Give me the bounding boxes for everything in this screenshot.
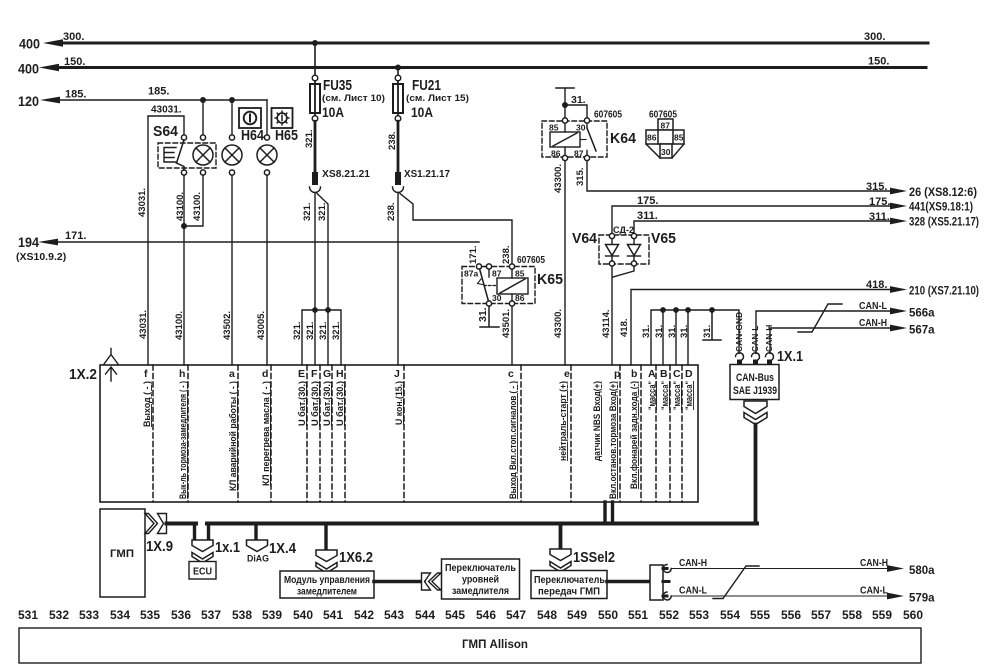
node on 185 rail at x202 xyxy=(200,97,206,103)
svg-text:43300.: 43300. xyxy=(553,164,564,193)
svg-text:85: 85 xyxy=(549,123,559,133)
wire 31 to K64 pin30 xyxy=(565,105,587,118)
svg-text:554: 554 xyxy=(720,608,740,622)
svg-text:87: 87 xyxy=(661,121,671,131)
svg-text:238.: 238. xyxy=(501,246,512,265)
svg-text:30: 30 xyxy=(576,123,586,133)
svg-text:СД-2: СД-2 xyxy=(613,225,634,236)
lamp H64 xyxy=(222,135,242,175)
title box ГМП Allison xyxy=(19,628,921,663)
svg-text:(см. Лист 15): (см. Лист 15) xyxy=(406,93,469,104)
svg-text:H: H xyxy=(336,368,344,380)
svg-text:D: D xyxy=(685,368,693,380)
connector XS1.21.17 xyxy=(393,172,404,193)
svg-text:КЛ аварийной работы ( - ): КЛ аварийной работы ( - ) xyxy=(228,381,238,491)
svg-text:400: 400 xyxy=(19,37,40,52)
ground stub 31 xyxy=(703,310,721,340)
svg-text:10A: 10A xyxy=(411,104,433,120)
arrow CAN-L bottom xyxy=(887,593,904,600)
node 321 G xyxy=(325,307,331,313)
connector hooks CAN-Bus xyxy=(736,353,774,366)
svg-text:U бат.(30.): U бат.(30.) xyxy=(335,381,345,426)
svg-text:560: 560 xyxy=(903,608,923,622)
node 31 D xyxy=(685,307,691,313)
svg-text:CAN-GND: CAN-GND xyxy=(734,312,744,352)
wire 175 (to arrow 441) xyxy=(612,206,902,234)
svg-text:543: 543 xyxy=(384,608,404,622)
svg-text:уровней: уровней xyxy=(462,575,499,586)
svg-text:547: 547 xyxy=(506,608,526,622)
svg-text:418.: 418. xyxy=(866,279,887,291)
svg-text:CAN-Bus: CAN-Bus xyxy=(736,372,774,384)
svg-text:43114.: 43114. xyxy=(601,309,612,338)
svg-text:194: 194 xyxy=(18,235,39,250)
svg-text:175.: 175. xyxy=(869,196,890,208)
svg-text:1X.9: 1X.9 xyxy=(146,539,173,555)
svg-text:"масса": "масса" xyxy=(672,381,682,410)
ECU box xyxy=(189,562,216,580)
svg-text:f: f xyxy=(144,368,148,380)
svg-text:550: 550 xyxy=(598,608,618,622)
connector mate chevron above 1X.2 xyxy=(104,349,118,365)
svg-text:"масса": "масса" xyxy=(647,381,657,410)
svg-text:Выход ( - ): Выход ( - ) xyxy=(142,381,152,427)
svg-text:43005.: 43005. xyxy=(256,311,267,340)
svg-text:150.: 150. xyxy=(868,56,889,68)
fuse FU35 xyxy=(310,40,320,121)
svg-text:553: 553 xyxy=(689,608,709,622)
svg-text:H64: H64 xyxy=(241,128,264,144)
svg-text:87: 87 xyxy=(574,149,584,159)
svg-text:нейтраль-старт (+): нейтраль-старт (+) xyxy=(558,381,568,461)
svg-text:311.: 311. xyxy=(637,210,658,222)
wire 150 rail xyxy=(39,64,926,72)
svg-text:300.: 300. xyxy=(864,31,885,43)
svg-text:544: 544 xyxy=(415,608,435,622)
svg-text:539: 539 xyxy=(262,608,282,622)
connector 1X.4 DIAG xyxy=(247,540,268,552)
wire 43501 (K65 pin86 to pin c) xyxy=(511,306,513,365)
svg-text:КЛ перегрева масла ( - ): КЛ перегрева масла ( - ) xyxy=(261,381,271,486)
svg-text:d: d xyxy=(262,368,268,380)
svg-text:B: B xyxy=(660,368,668,380)
svg-text:XS8.21.21: XS8.21.21 xyxy=(322,168,370,180)
block separators (dashed) xyxy=(153,365,682,502)
svg-text:Вык-ль тормоза-замедлителя ( -: Вык-ль тормоза-замедлителя ( - ) xyxy=(178,381,188,499)
svg-text:FU21: FU21 xyxy=(412,78,441,94)
svg-text:537: 537 xyxy=(201,608,221,622)
svg-text:171.: 171. xyxy=(468,246,479,265)
svg-text:FU35: FU35 xyxy=(323,78,352,94)
wire 43502 (H64 to pin a) xyxy=(231,175,233,365)
wire 238 to pin J xyxy=(397,193,399,366)
svg-text:CAN-L: CAN-L xyxy=(859,301,887,312)
svg-text:579а: 579а xyxy=(909,593,935,605)
svg-text:85: 85 xyxy=(674,133,684,143)
svg-text:567а: 567а xyxy=(909,325,935,337)
wire H65 top (corner of 185 rail) xyxy=(266,100,268,135)
svg-text:607605: 607605 xyxy=(649,110,677,121)
wire 418 (pin b to arrow 210) xyxy=(631,290,902,366)
retarder lever switch box xyxy=(442,559,520,599)
svg-text:541: 541 xyxy=(323,608,343,622)
connector chevrons below CAN-Bus box xyxy=(744,401,767,425)
svg-text:SAE J1939: SAE J1939 xyxy=(733,385,777,397)
connector 1X.9 xyxy=(145,514,167,534)
svg-text:1X.4: 1X.4 xyxy=(269,541,296,557)
main thick bus xyxy=(167,524,758,541)
wire 43300 (K64 pin86 to pin e) xyxy=(564,161,566,365)
svg-text:30: 30 xyxy=(661,147,671,157)
svg-text:ГМП: ГМП xyxy=(110,548,134,560)
svg-text:311.: 311. xyxy=(869,211,890,223)
svg-text:328 (XS5.21.17): 328 (XS5.21.17) xyxy=(909,217,979,229)
retarder control module box xyxy=(280,571,374,598)
arrow CAN-L right xyxy=(890,308,907,315)
svg-text:S64: S64 xyxy=(153,124,178,140)
icon warning lamp (above H64) xyxy=(239,108,261,128)
svg-text:210 (XS7.21.10): 210 (XS7.21.10) xyxy=(909,286,979,298)
twisted pair symbol bottom xyxy=(713,566,759,599)
wire CAN-L (to arrow 566a) xyxy=(756,311,902,353)
svg-text:XS1.21.17: XS1.21.17 xyxy=(404,168,450,180)
svg-text:548: 548 xyxy=(537,608,557,622)
wire 300 rail xyxy=(43,39,928,47)
svg-text:V65: V65 xyxy=(651,230,676,247)
svg-text:U кон.(15.): U кон.(15.) xyxy=(394,381,404,425)
scale numbers row xyxy=(18,608,923,622)
connector 1SSel2 xyxy=(550,549,571,572)
svg-text:U бат.(30.): U бат.(30.) xyxy=(322,381,332,426)
wire lamp1 top xyxy=(202,100,204,135)
svg-text:(см. Лист 10): (см. Лист 10) xyxy=(322,93,385,104)
svg-text:H65: H65 xyxy=(275,128,298,144)
wire CAN-H (to arrow 567a) xyxy=(770,328,902,353)
svg-text:533: 533 xyxy=(79,608,99,622)
svg-text:300.: 300. xyxy=(63,31,84,43)
relay K65 xyxy=(462,264,535,306)
arrow up inside 1X.2 xyxy=(106,367,117,381)
svg-text:F: F xyxy=(311,368,318,380)
svg-text:30: 30 xyxy=(492,293,502,303)
svg-text:E: E xyxy=(298,368,305,380)
icon oil temp (above H65) xyxy=(272,108,293,128)
svg-text:321.: 321. xyxy=(331,322,342,341)
svg-text:557: 557 xyxy=(811,608,831,622)
svg-text:321.: 321. xyxy=(302,203,313,222)
svg-text:CAN-L: CAN-L xyxy=(860,586,888,597)
svg-text:85: 85 xyxy=(515,269,525,279)
wire 311 (to arrow 328) xyxy=(634,221,902,234)
switch S64 xyxy=(158,135,216,175)
CAN-Bus SAE J1939 box xyxy=(730,365,779,400)
svg-text:31.: 31. xyxy=(702,325,713,338)
wire CAN-H bottom xyxy=(672,568,898,570)
svg-text:1X.2: 1X.2 xyxy=(69,367,97,383)
bus tap DIAG xyxy=(254,524,257,541)
svg-text:передач ГМП: передач ГМП xyxy=(538,587,600,598)
svg-text:U бат.(30.): U бат.(30.) xyxy=(310,381,320,426)
svg-text:43031.: 43031. xyxy=(138,310,149,339)
svg-text:10A: 10A xyxy=(322,104,344,120)
svg-text:Переключатель: Переключатель xyxy=(534,575,605,586)
ground bus 31 (pins A-D) xyxy=(651,310,739,365)
svg-text:p: p xyxy=(614,368,620,380)
svg-text:580а: 580а xyxy=(909,565,935,577)
svg-text:531: 531 xyxy=(18,608,38,622)
svg-text:43300.: 43300. xyxy=(553,309,564,338)
svg-text:540: 540 xyxy=(293,608,313,622)
power bar 31 (above K64) xyxy=(556,88,574,118)
svg-text:43031.: 43031. xyxy=(151,105,182,116)
diode V64 xyxy=(606,239,619,261)
wire 43100 (S64 out, to pin h) xyxy=(183,175,185,365)
node 31 branch xyxy=(562,102,568,108)
arrow 315 right xyxy=(890,188,907,195)
lamp H65 xyxy=(257,135,277,175)
svg-text:549: 549 xyxy=(567,608,587,622)
svg-text:566а: 566а xyxy=(909,308,935,320)
svg-text:Переключатель: Переключатель xyxy=(445,563,516,574)
svg-text:120: 120 xyxy=(18,94,39,109)
svg-text:532: 532 xyxy=(49,608,69,622)
svg-text:Модуль управления: Модуль управления xyxy=(284,575,370,586)
svg-text:86: 86 xyxy=(515,293,525,303)
svg-text:87а: 87а xyxy=(464,269,478,279)
svg-text:86: 86 xyxy=(551,149,561,159)
svg-text:315.: 315. xyxy=(866,181,887,193)
svg-text:Вкл.фонарей задн.хода (-): Вкл.фонарей задн.хода (-) xyxy=(629,381,639,489)
connector 1X6.2 xyxy=(316,550,337,573)
wire 43100 lamp1 down xyxy=(184,175,203,226)
svg-text:552: 552 xyxy=(659,608,679,622)
svg-text:CAN-L: CAN-L xyxy=(750,326,760,352)
relay socket 607605 pictogram xyxy=(646,119,684,158)
CAN connector block xyxy=(650,565,671,601)
svg-text:U бат.(30.): U бат.(30.) xyxy=(297,381,307,426)
svg-text:1SSel2: 1SSel2 xyxy=(573,550,615,566)
wire CAN-L bottom xyxy=(672,595,898,597)
svg-text:1x.1: 1x.1 xyxy=(215,540,240,556)
svg-text:Выход Вкл.стоп.сигналов ( - ): Выход Вкл.стоп.сигналов ( - ) xyxy=(508,381,518,499)
wire 43114 (diodes to pin p) xyxy=(612,266,634,365)
twisted pair symbol top xyxy=(798,304,842,332)
svg-text:замедлителем: замедлителем xyxy=(297,587,357,598)
svg-text:542: 542 xyxy=(354,608,374,622)
svg-text:171.: 171. xyxy=(65,230,86,242)
wire 321b below connector (diagonal) xyxy=(317,194,328,311)
svg-text:238.: 238. xyxy=(387,132,398,151)
svg-text:CAN-H: CAN-H xyxy=(764,325,774,352)
node 31 gnd stub xyxy=(709,307,715,313)
svg-text:A: A xyxy=(648,368,656,380)
svg-text:CAN-H: CAN-H xyxy=(860,558,888,569)
wire 43005 (H65 to pin d) xyxy=(266,175,268,365)
svg-text:ГМП Allison: ГМП Allison xyxy=(462,639,528,651)
wire 31 ground (K65 pin30) xyxy=(480,306,499,327)
svg-text:175.: 175. xyxy=(637,195,658,207)
svg-text:558: 558 xyxy=(842,608,862,622)
svg-text:607605: 607605 xyxy=(517,255,545,266)
ГМП box xyxy=(100,509,145,597)
connector 1x.1 xyxy=(192,540,213,563)
svg-text:G: G xyxy=(323,368,331,380)
diode block V64 V65 xyxy=(599,233,649,266)
svg-text:607605: 607605 xyxy=(594,110,622,121)
svg-text:b: b xyxy=(631,368,637,380)
svg-text:43100.: 43100. xyxy=(174,311,185,340)
wire 238 to K65 (diagonal) xyxy=(400,194,512,265)
svg-text:185.: 185. xyxy=(65,89,86,101)
bus tap 1X6.2 xyxy=(324,524,327,551)
svg-text:31.: 31. xyxy=(667,325,678,338)
svg-text:43501.: 43501. xyxy=(501,309,512,338)
connector block 1X.2 xyxy=(100,365,698,502)
node on 185 rail at x232 xyxy=(229,97,235,103)
svg-text:150.: 150. xyxy=(64,56,85,68)
svg-text:c: c xyxy=(508,368,514,380)
wire 185 rail xyxy=(40,97,267,104)
node 321 F xyxy=(312,307,318,313)
svg-text:43502.: 43502. xyxy=(222,311,233,340)
svg-text:31.: 31. xyxy=(477,307,489,322)
bus risers into 1X.2 xyxy=(605,502,613,524)
svg-text:87: 87 xyxy=(492,269,502,279)
fuse FU21 xyxy=(393,65,403,122)
svg-text:238.: 238. xyxy=(386,203,397,222)
bus bracket to pins E F G H xyxy=(302,310,341,365)
svg-text:538: 538 xyxy=(232,608,252,622)
svg-text:441(XS9.18:1): 441(XS9.18:1) xyxy=(909,202,973,214)
svg-text:321.: 321. xyxy=(305,322,316,341)
svg-text:418.: 418. xyxy=(619,319,630,338)
arrow 418 right xyxy=(890,286,907,293)
svg-text:K65: K65 xyxy=(537,271,563,288)
arrow CAN-H bottom xyxy=(887,565,904,572)
svg-text:551: 551 xyxy=(628,608,648,622)
svg-text:400: 400 xyxy=(18,62,39,77)
svg-text:e: e xyxy=(564,368,570,380)
node 31 B xyxy=(660,307,666,313)
svg-text:535: 535 xyxy=(140,608,160,622)
svg-text:321.: 321. xyxy=(304,130,315,149)
arrow CAN-H right xyxy=(890,325,907,332)
wire 321 thick xyxy=(314,121,317,172)
svg-text:h: h xyxy=(179,368,185,380)
svg-text:Вкл.останов.тормоза Вход(+): Вкл.останов.тормоза Вход(+) xyxy=(608,381,618,499)
wire 321a below connector xyxy=(314,193,316,311)
svg-text:315.: 315. xyxy=(575,168,586,187)
svg-text:датчик NBS Вход(+): датчик NBS Вход(+) xyxy=(592,381,602,461)
svg-text:V64: V64 xyxy=(572,230,598,247)
svg-text:321.: 321. xyxy=(317,203,328,222)
thick wire module to lever switch xyxy=(374,580,424,584)
connector retarder lever xyxy=(422,573,442,590)
bus tap 1SSel2 xyxy=(559,524,563,550)
diode V65 xyxy=(628,239,641,261)
svg-text:536: 536 xyxy=(171,608,191,622)
svg-text:K64: K64 xyxy=(610,130,637,147)
svg-text:43031.: 43031. xyxy=(137,188,148,217)
wire H64 top xyxy=(231,100,233,135)
svg-text:31.: 31. xyxy=(679,325,690,338)
svg-text:(XS10.9.2): (XS10.9.2) xyxy=(16,251,66,263)
svg-text:546: 546 xyxy=(476,608,496,622)
svg-text:C: C xyxy=(673,368,681,380)
svg-text:26 (XS8.12:6): 26 (XS8.12:6) xyxy=(909,187,977,199)
svg-text:J: J xyxy=(394,368,400,380)
thick wire selector to CAN connector xyxy=(607,580,650,584)
svg-text:замедлителя: замедлителя xyxy=(452,586,509,597)
svg-text:545: 545 xyxy=(445,608,465,622)
svg-text:1X.1: 1X.1 xyxy=(777,349,803,365)
svg-text:43100.: 43100. xyxy=(175,192,186,221)
arrow 175 right xyxy=(890,203,907,210)
svg-text:CAN-H: CAN-H xyxy=(679,558,707,569)
lamp in S64 (left lamp) xyxy=(193,135,213,175)
svg-text:534: 534 xyxy=(110,608,130,622)
svg-text:1X6.2: 1X6.2 xyxy=(339,550,373,566)
svg-text:321.: 321. xyxy=(318,322,329,341)
svg-text:86: 86 xyxy=(647,133,657,143)
svg-text:ECU: ECU xyxy=(193,566,212,578)
svg-text:CAN-H: CAN-H xyxy=(859,318,887,329)
thick CAN drop wire xyxy=(754,425,758,524)
node 31 C xyxy=(673,307,679,313)
wire 43031 (S64 feed, to pin f) xyxy=(148,116,184,365)
svg-text:31.: 31. xyxy=(641,325,652,338)
svg-text:"масса": "масса" xyxy=(660,381,670,410)
svg-text:CAN-L: CAN-L xyxy=(679,586,707,597)
wire 238 thick xyxy=(397,121,400,172)
wire 171 rail xyxy=(38,239,479,246)
arrow 311 right xyxy=(890,218,907,225)
gear selector box xyxy=(531,571,607,599)
svg-text:321.: 321. xyxy=(292,322,303,341)
svg-text:555: 555 xyxy=(750,608,770,622)
wire 315 (K64 pin87 to arrow 26) xyxy=(587,161,902,191)
svg-text:DiAG: DiAG xyxy=(247,554,269,565)
svg-text:185.: 185. xyxy=(148,86,169,98)
svg-text:a: a xyxy=(229,368,235,380)
svg-text:"масса": "масса" xyxy=(684,381,694,410)
svg-text:31.: 31. xyxy=(571,94,586,106)
connector XS8.21.21 xyxy=(310,172,321,193)
svg-text:559: 559 xyxy=(872,608,892,622)
relay K64 xyxy=(542,118,607,161)
svg-text:43100.: 43100. xyxy=(192,192,203,221)
svg-text:31.: 31. xyxy=(654,325,665,338)
node 43100 join xyxy=(181,223,187,229)
svg-text:556: 556 xyxy=(781,608,801,622)
